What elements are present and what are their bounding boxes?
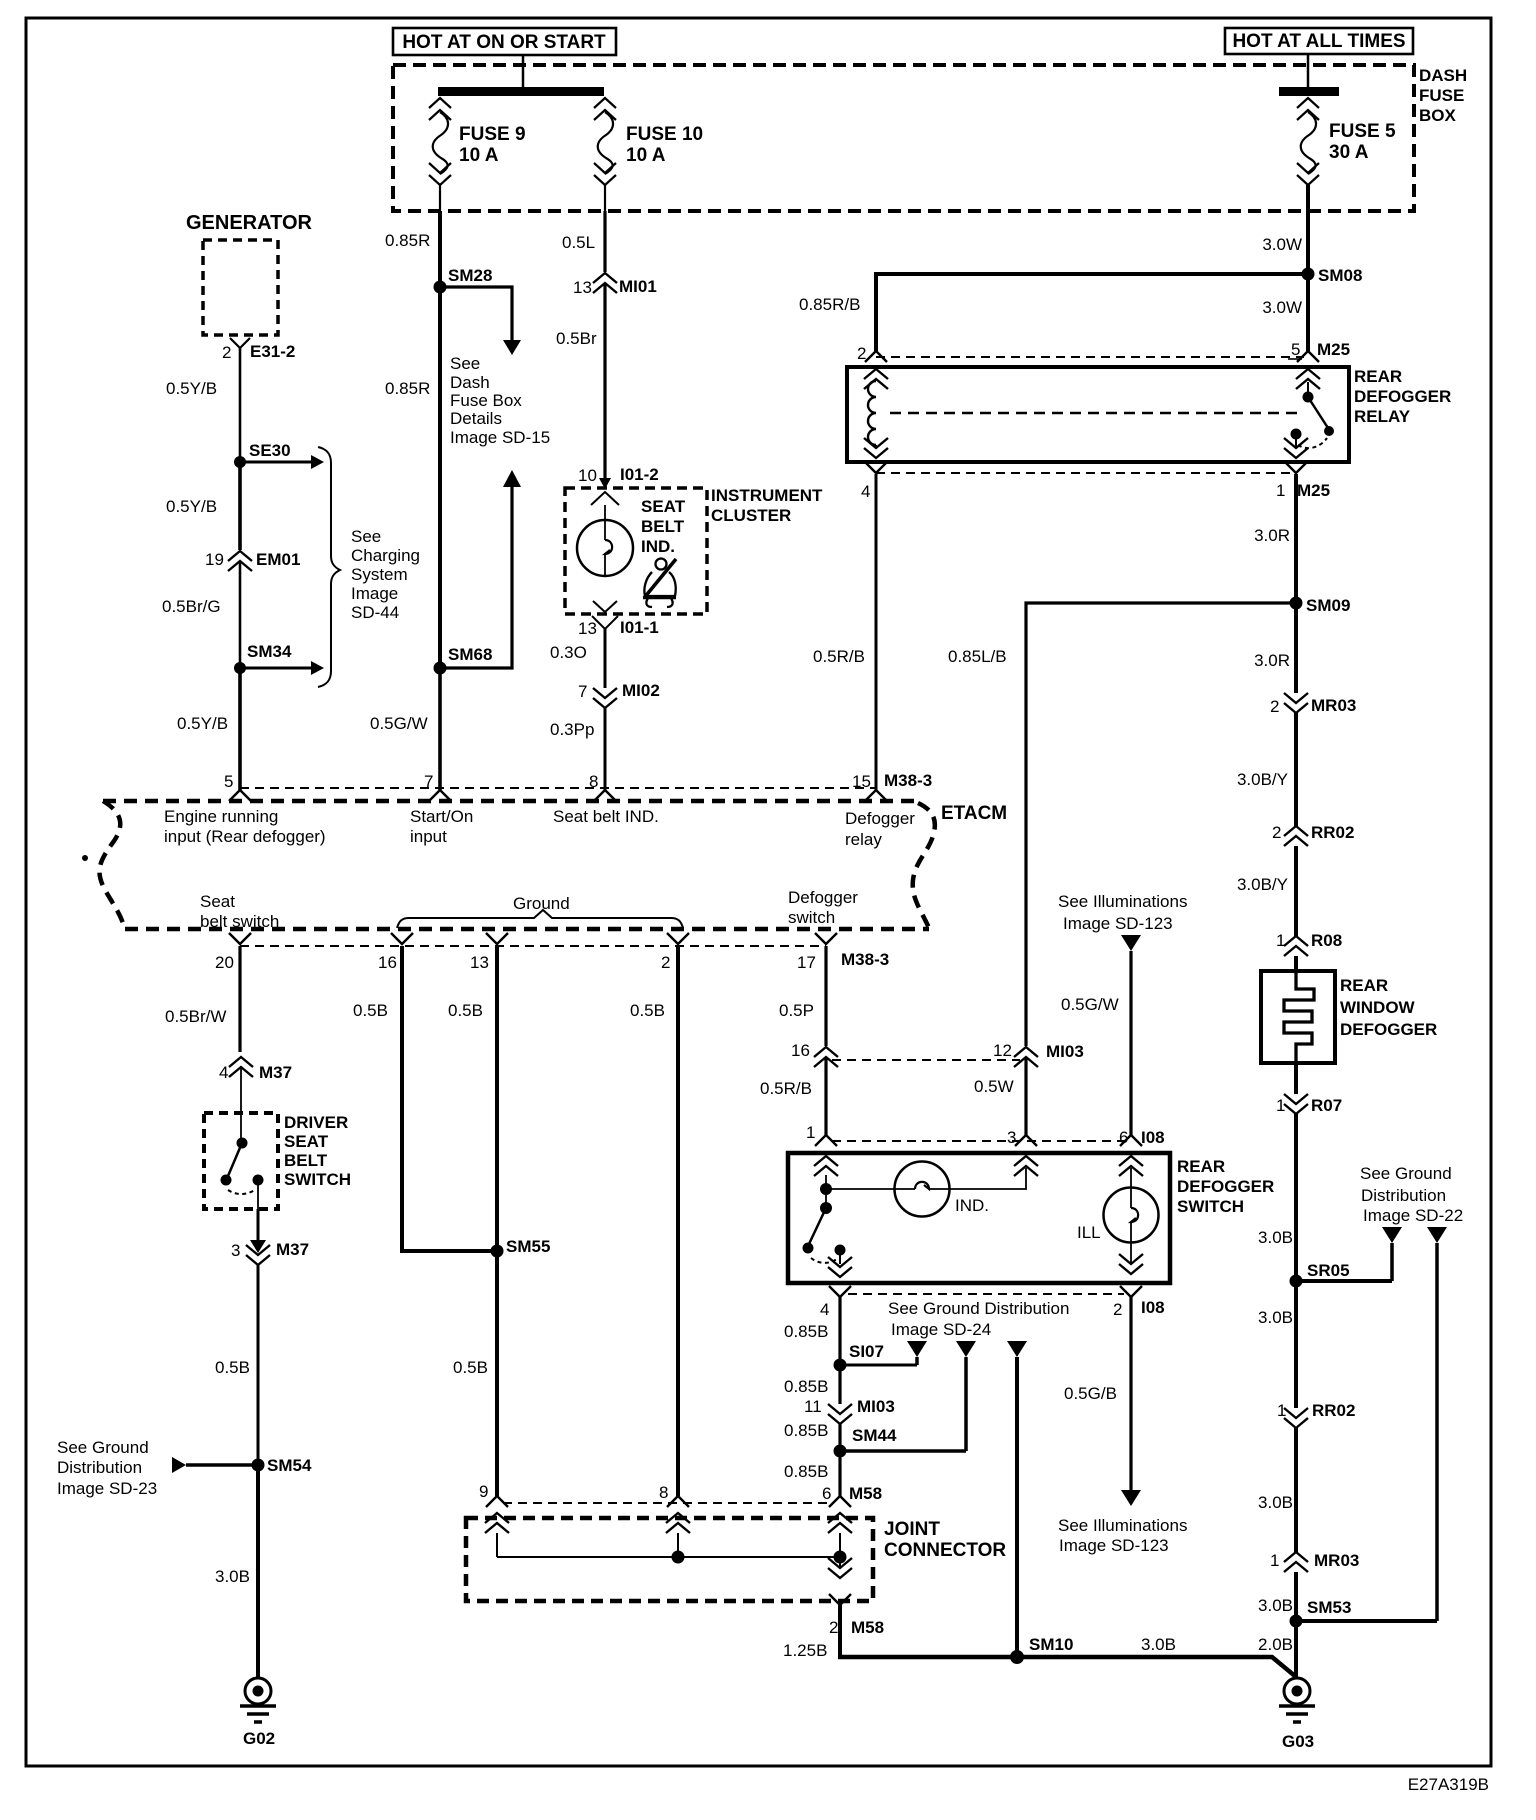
wire 0.5P ETACM pin 17 to MI03 pin 16 <box>779 946 826 1046</box>
ground G03 <box>1279 1678 1315 1751</box>
svg-text:0.85R: 0.85R <box>385 379 430 398</box>
wire 0.5B ETACM pin 2 to joint connector pin 8 <box>630 946 678 1496</box>
connector line M25 lower (dashed) <box>876 472 1293 474</box>
svg-text:0.5B: 0.5B <box>630 1001 665 1020</box>
svg-text:3.0B/Y: 3.0B/Y <box>1237 770 1288 789</box>
svg-text:Seat: Seat <box>200 892 235 911</box>
svg-text:0.5W: 0.5W <box>974 1077 1014 1096</box>
node SR05 <box>1290 1261 1393 1288</box>
defogger switch contacts <box>803 1175 846 1264</box>
svg-text:SM68: SM68 <box>448 645 492 664</box>
svg-text:CLUSTER: CLUSTER <box>711 506 791 525</box>
connector I01-1 pin 13 <box>578 601 659 638</box>
svg-text:See Illuminations: See Illuminations <box>1058 892 1187 911</box>
connector line M25 (dashed) <box>876 356 1304 358</box>
wire defogger to R07 pin 1 <box>1294 1063 1298 1094</box>
svg-text:INSTRUMENT: INSTRUMENT <box>711 486 823 505</box>
connector M58 pin 6 <box>822 1484 882 1533</box>
seat belt pictogram <box>643 559 676 608</box>
svg-text:2: 2 <box>829 1618 838 1637</box>
svg-text:10 A: 10 A <box>459 145 499 166</box>
header box HOT AT ALL TIMES <box>1225 28 1413 54</box>
ETACM outline left wavy edge <box>99 801 125 929</box>
wire 0.3Pp MI02 to ETACM pin 8 <box>550 708 605 790</box>
svg-text:3.0R: 3.0R <box>1254 651 1290 670</box>
ground G02 <box>240 1678 276 1748</box>
svg-text:30 A: 30 A <box>1329 142 1369 163</box>
instrument cluster (dashed box) <box>565 488 707 614</box>
switch pin 4 <box>820 1257 852 1319</box>
svg-text:Dash: Dash <box>450 373 490 392</box>
svg-text:G02: G02 <box>243 1729 275 1748</box>
svg-text:input (Rear defogger): input (Rear defogger) <box>164 827 326 846</box>
note See Ground Distribution Image SD-22 <box>1360 1164 1463 1225</box>
wire ground bus to SM10 <box>838 1655 1017 1660</box>
svg-text:19: 19 <box>205 550 224 569</box>
label SEAT BELT IND. <box>641 497 686 556</box>
svg-text:DASH: DASH <box>1419 66 1467 85</box>
seat belt switch contacts <box>221 1138 264 1210</box>
svg-text:See Ground: See Ground <box>1360 1164 1452 1183</box>
svg-text:M37: M37 <box>276 1240 309 1259</box>
ETACM pin 17 M38-3 <box>797 933 889 972</box>
relay switch <box>1291 382 1335 448</box>
svg-text:2: 2 <box>1113 1300 1122 1319</box>
label REAR DEFOGGER RELAY <box>1354 367 1451 426</box>
wire 0.5G/W illumination feed to switch pin 6 <box>1061 951 1131 1135</box>
wire 0.5Br MI01 to instrument cluster pin 10 <box>556 284 605 480</box>
svg-text:12: 12 <box>993 1041 1012 1060</box>
wire 0.5B M37 to SM54 <box>215 1265 258 1465</box>
svg-text:Distribution: Distribution <box>57 1458 142 1477</box>
svg-text:BELT: BELT <box>284 1151 328 1170</box>
svg-text:3.0R: 3.0R <box>1254 526 1290 545</box>
svg-text:3.0B: 3.0B <box>1258 1596 1293 1615</box>
svg-text:Fuse Box: Fuse Box <box>450 391 522 410</box>
svg-text:0.85B: 0.85B <box>784 1377 828 1396</box>
svg-text:belt switch: belt switch <box>200 912 279 931</box>
svg-text:See: See <box>450 354 480 373</box>
svg-text:MI01: MI01 <box>619 277 657 296</box>
svg-text:0.5L: 0.5L <box>562 233 595 252</box>
indicator lamp IND <box>826 1162 1026 1217</box>
svg-text:3.0B: 3.0B <box>1141 1635 1176 1654</box>
label DASH FUSE BOX <box>1419 66 1467 125</box>
svg-text:SM34: SM34 <box>247 642 292 661</box>
svg-text:M38-3: M38-3 <box>841 950 889 969</box>
note text See Dash Fuse Box Details Image SD-15 <box>450 354 550 447</box>
svg-text:2: 2 <box>1270 697 1279 716</box>
svg-text:FUSE 5: FUSE 5 <box>1329 121 1396 142</box>
svg-text:7: 7 <box>424 772 433 791</box>
note See Illuminations Image SD-123 (top) <box>1058 892 1187 951</box>
svg-text:DEFOGGER: DEFOGGER <box>1177 1177 1274 1196</box>
svg-text:BELT: BELT <box>641 517 685 536</box>
note See Ground Distribution Image SD-24 <box>888 1299 1069 1339</box>
ETACM outline right wavy edge <box>913 803 935 928</box>
wire 1.25B M58 pin 2 down <box>783 1605 840 1660</box>
label REAR DEFOGGER SWITCH <box>1177 1157 1274 1216</box>
label JOINT CONNECTOR <box>884 1519 1006 1561</box>
wire 0.85B SI07 to MI03 pin 11 <box>784 1365 840 1404</box>
svg-text:0.85B: 0.85B <box>784 1322 828 1341</box>
wire 0.85R SM28 to SM68 <box>385 287 440 668</box>
node SM34 <box>234 642 324 675</box>
svg-text:M25: M25 <box>1317 340 1350 359</box>
ground distribution triangle SD-24 a <box>907 1341 927 1365</box>
svg-text:0.85R/B: 0.85R/B <box>799 295 860 314</box>
svg-text:relay: relay <box>845 830 882 849</box>
svg-text:SI07: SI07 <box>849 1342 884 1361</box>
svg-text:EM01: EM01 <box>256 550 300 569</box>
svg-text:3.0B: 3.0B <box>1258 1228 1293 1247</box>
svg-text:10 A: 10 A <box>626 145 666 166</box>
svg-text:See: See <box>351 527 381 546</box>
svg-text:SM53: SM53 <box>1307 1598 1351 1617</box>
svg-text:13: 13 <box>573 278 592 297</box>
svg-text:3.0W: 3.0W <box>1262 235 1302 254</box>
svg-text:Image SD-123: Image SD-123 <box>1059 1536 1169 1555</box>
svg-text:16: 16 <box>791 1041 810 1060</box>
svg-text:3.0W: 3.0W <box>1262 298 1302 317</box>
svg-text:RR02: RR02 <box>1311 823 1354 842</box>
svg-text:0.5Y/B: 0.5Y/B <box>177 714 228 733</box>
svg-text:FUSE: FUSE <box>1419 86 1464 105</box>
svg-text:M25: M25 <box>1297 481 1330 500</box>
node SI07 <box>834 1342 918 1372</box>
ETACM pin 15 M38-3 <box>852 771 932 801</box>
wire 0.5Br/G EM01 to SM34 <box>162 562 240 668</box>
driver seat belt switch (dashed box) <box>204 1113 278 1209</box>
joint connector internal bus <box>497 1533 847 1568</box>
svg-text:13: 13 <box>470 953 489 972</box>
ETACM outline bottom edge <box>125 927 929 932</box>
ETACM pin 20 <box>215 933 251 972</box>
wire 0.5Br/W ETACM pin 20 to M37 pin 4 <box>165 946 240 1052</box>
svg-text:I08: I08 <box>1141 1298 1165 1317</box>
svg-text:CONNECTOR: CONNECTOR <box>884 1540 1006 1561</box>
svg-text:2: 2 <box>661 953 670 972</box>
svg-text:MR03: MR03 <box>1311 696 1356 715</box>
label INSTRUMENT CLUSTER <box>711 486 823 525</box>
svg-text:9: 9 <box>479 1482 488 1501</box>
svg-text:FUSE 9: FUSE 9 <box>459 124 526 145</box>
node SM53 <box>1290 1598 1438 1628</box>
note See Illuminations Image SD-123 (bottom) <box>1058 1490 1187 1555</box>
svg-text:0.5B: 0.5B <box>448 1001 483 1020</box>
svg-text:See Ground Distribution: See Ground Distribution <box>888 1299 1069 1318</box>
connector EM01 pin 19 <box>205 550 300 571</box>
svg-text:Defogger: Defogger <box>845 809 915 828</box>
svg-text:HOT AT ON OR START: HOT AT ON OR START <box>402 32 606 53</box>
node SE30 <box>234 441 324 469</box>
svg-text:0.85L/B: 0.85L/B <box>948 647 1007 666</box>
svg-text:0.5Br/G: 0.5Br/G <box>162 597 221 616</box>
wire M37 to seat belt switch <box>240 1068 242 1143</box>
svg-text:3: 3 <box>1007 1128 1016 1147</box>
svg-text:M58: M58 <box>849 1484 882 1503</box>
svg-text:FUSE 10: FUSE 10 <box>626 124 703 145</box>
wire 3.0B RR02 to MR03 pin 1 <box>1258 1428 1296 1552</box>
svg-text:0.5Y/B: 0.5Y/B <box>166 497 217 516</box>
connector MI03 pin 11 <box>804 1397 895 1424</box>
connector line M38-3 top (thin dashed) <box>240 787 876 789</box>
fuse F10 symbol <box>594 98 616 211</box>
svg-text:Seat belt IND.: Seat belt IND. <box>553 807 659 826</box>
svg-text:Image: Image <box>351 584 398 603</box>
label Ground with brace <box>397 894 683 928</box>
wire 2.0B SM53 to G03 <box>1258 1621 1296 1678</box>
ETACM pin 2 <box>661 933 689 972</box>
svg-text:REAR: REAR <box>1340 976 1388 995</box>
connector M58 pin 2 <box>828 1558 884 1637</box>
svg-text:IND.: IND. <box>955 1196 989 1215</box>
joint connector (dashed box) <box>466 1518 873 1601</box>
svg-text:17: 17 <box>797 953 816 972</box>
svg-text:R08: R08 <box>1311 931 1342 950</box>
dash fuse box (dashed enclosure) <box>393 65 1414 211</box>
label Defogger switch <box>788 888 858 927</box>
svg-text:2: 2 <box>222 343 231 362</box>
ETACM input labels <box>164 807 326 846</box>
svg-text:SM08: SM08 <box>1318 266 1362 285</box>
wire 0.5R/B MI03 to switch pin 1 <box>760 1058 826 1135</box>
svg-text:1: 1 <box>1276 481 1285 500</box>
wire 0.85L/B SM09 branch to MI03 pin 12 <box>948 603 1296 1046</box>
svg-text:0.5G/B: 0.5G/B <box>1064 1384 1117 1403</box>
node SM68 with arrow up to note <box>434 470 522 675</box>
svg-text:SD-44: SD-44 <box>351 603 399 622</box>
svg-text:Distribution: Distribution <box>1361 1186 1446 1205</box>
svg-text:RELAY: RELAY <box>1354 407 1411 426</box>
svg-text:HOT AT ALL TIMES: HOT AT ALL TIMES <box>1232 31 1405 52</box>
svg-text:System: System <box>351 565 408 584</box>
svg-text:I01-1: I01-1 <box>620 618 659 637</box>
wire 3.0R M25 pin 1 to SM09 <box>1254 474 1296 603</box>
svg-text:switch: switch <box>788 908 835 927</box>
svg-text:Image SD-15: Image SD-15 <box>450 428 550 447</box>
fuse F5 symbol <box>1297 98 1319 211</box>
svg-text:M37: M37 <box>259 1063 292 1082</box>
connector line MI03 (thin dashed) <box>832 1059 1020 1061</box>
ground distribution triangle SD-24 b <box>956 1341 976 1451</box>
wire seat belt switch to M37 pin 3 <box>257 1209 260 1243</box>
wire 3.0B SM10 to G03 <box>1017 1635 1295 1679</box>
svg-text:SM10: SM10 <box>1029 1635 1073 1654</box>
connector line M38-3 bottom (thin dashed) <box>240 945 826 947</box>
node SM28 with arrow to note <box>434 266 522 355</box>
wire 0.85R fuse 9 to SM28 <box>385 211 440 287</box>
svg-text:G03: G03 <box>1282 1732 1314 1751</box>
ETACM pin 7 <box>424 772 451 801</box>
wire 3.0W SM08 to M25 pin 5 <box>1262 274 1308 351</box>
svg-text:Defogger: Defogger <box>788 888 858 907</box>
node SM08 <box>1302 266 1363 285</box>
svg-text:5: 5 <box>1291 340 1300 359</box>
fuse bus bar (fuses 9/10) <box>438 87 604 96</box>
svg-text:8: 8 <box>659 1483 668 1502</box>
svg-text:Image SD-23: Image SD-23 <box>57 1479 157 1498</box>
ground distribution triangle SD-22 a <box>1382 1227 1402 1281</box>
wire 3.0B MR03 to SM53 <box>1258 1572 1296 1621</box>
wire 0.5B ETACM pin 13 to SM55 <box>448 946 497 1251</box>
svg-text:GENERATOR: GENERATOR <box>186 212 312 234</box>
connector M25 pin 1 <box>1276 438 1330 500</box>
node SM44 <box>834 1426 967 1458</box>
wire feed from HOT AT ON OR START to fuse bus <box>522 55 525 87</box>
svg-text:REAR: REAR <box>1177 1157 1225 1176</box>
svg-text:0.3O: 0.3O <box>550 643 587 662</box>
svg-text:0.5R/B: 0.5R/B <box>760 1079 812 1098</box>
connector E31-2 pin 2 <box>222 338 295 362</box>
svg-text:10: 10 <box>578 466 597 485</box>
label Start/On input <box>410 807 473 846</box>
svg-text:Image SD-123: Image SD-123 <box>1063 914 1173 933</box>
connector I01-2 pin 10 <box>578 465 659 505</box>
node SM55 <box>491 1237 551 1258</box>
svg-text:0.85B: 0.85B <box>784 1421 828 1440</box>
connector line I08 (thin dashed) <box>832 1140 1124 1142</box>
connector M25 pin 4 (relay coil out) <box>861 438 888 501</box>
label Defogger relay <box>845 809 915 849</box>
svg-text:DEFOGGER: DEFOGGER <box>1354 387 1451 406</box>
svg-text:1.25B: 1.25B <box>783 1641 827 1660</box>
svg-text:1: 1 <box>1276 1096 1285 1115</box>
note text See Charging System Image SD-44 <box>351 527 420 622</box>
wire 0.5L fuse 10 to MI01 <box>562 211 605 272</box>
fuse F5 supply bar <box>1279 87 1339 96</box>
ETACM pin 8 <box>589 772 616 801</box>
svg-text:1: 1 <box>1277 1401 1286 1420</box>
svg-text:I01-2: I01-2 <box>620 465 659 484</box>
header box HOT AT ON OR START <box>393 28 616 55</box>
wire 0.5Y/B SM34 to ETACM pin 5 <box>177 668 240 790</box>
connector R08 pin 1 <box>1276 931 1342 956</box>
wire 0.85B switch pin 4 to SI07 <box>784 1297 840 1365</box>
connector MI03 pin 12 <box>993 1041 1084 1067</box>
svg-text:3: 3 <box>231 1241 240 1260</box>
label FUSE 9 10 A <box>459 124 526 166</box>
svg-text:0.5G/W: 0.5G/W <box>1061 995 1119 1014</box>
relay actuation line (dashed) <box>890 412 1300 414</box>
svg-text:BOX: BOX <box>1419 106 1457 125</box>
svg-text:7: 7 <box>578 682 587 701</box>
svg-text:DEFOGGER: DEFOGGER <box>1340 1020 1437 1039</box>
fuse F9 symbol <box>429 98 451 211</box>
svg-text:SR05: SR05 <box>1307 1261 1350 1280</box>
ground distribution triangle SD-24 c <box>1007 1341 1027 1657</box>
ETACM pin 16 <box>378 933 413 972</box>
seat belt indicator bulb <box>577 505 633 576</box>
svg-text:0.3Pp: 0.3Pp <box>550 720 594 739</box>
svg-text:M38-3: M38-3 <box>884 771 932 790</box>
wire 0.5G/B switch pin 2 to illumination <box>1064 1297 1131 1491</box>
svg-text:0.5R/B: 0.5R/B <box>813 647 865 666</box>
label Seat belt switch <box>200 892 279 931</box>
svg-text:SM55: SM55 <box>506 1237 550 1256</box>
svg-text:0.5B: 0.5B <box>353 1001 388 1020</box>
svg-text:input: input <box>410 827 447 846</box>
svg-text:6: 6 <box>1119 1128 1128 1147</box>
ETACM pin 5 <box>224 772 251 801</box>
wire 0.5B ETACM pin 16 to SM55 <box>353 946 497 1251</box>
svg-text:3.0B: 3.0B <box>1258 1308 1293 1327</box>
note brace: see charging system <box>318 447 340 687</box>
svg-text:13: 13 <box>578 619 597 638</box>
connector M37 pin 3 <box>231 1240 309 1265</box>
svg-text:3.0B/Y: 3.0B/Y <box>1237 875 1288 894</box>
svg-text:1: 1 <box>1270 1551 1279 1570</box>
joint connector pin 8 <box>659 1483 690 1557</box>
label FUSE 10 10 A <box>626 124 703 166</box>
svg-text:0.5Br/W: 0.5Br/W <box>165 1007 226 1026</box>
svg-text:Details: Details <box>450 409 502 428</box>
wire 3.0R SM09 to MR03 pin 2 <box>1254 603 1296 693</box>
ETACM module outline (dashed) top edge <box>103 799 918 804</box>
svg-text:0.85B: 0.85B <box>784 1462 828 1481</box>
svg-text:20: 20 <box>215 953 234 972</box>
joint connector pin 9 <box>479 1482 509 1557</box>
svg-text:I08: I08 <box>1141 1128 1165 1147</box>
svg-text:0.5B: 0.5B <box>215 1358 250 1377</box>
label DRIVER SEAT BELT SWITCH <box>284 1113 351 1189</box>
connector RR02 pin 2 <box>1272 823 1354 846</box>
svg-text:REAR: REAR <box>1354 367 1402 386</box>
svg-text:8: 8 <box>589 772 598 791</box>
svg-text:SM54: SM54 <box>267 1456 312 1475</box>
svg-text:See Illuminations: See Illuminations <box>1058 1516 1187 1535</box>
switch pin 2 I08 <box>1113 1254 1165 1319</box>
svg-text:ILL: ILL <box>1077 1223 1101 1242</box>
wire R08 to rear window defogger <box>1294 956 1298 971</box>
ground distribution triangle SD-22 b <box>1427 1227 1447 1621</box>
wire 0.3O I01-1 to MI02 <box>550 629 605 688</box>
label FUSE 5 30 A <box>1329 121 1396 163</box>
wire 0.85B MI03 to SM44 <box>784 1421 840 1451</box>
svg-text:Image SD-22: Image SD-22 <box>1363 1206 1463 1225</box>
wire 0.5R/B relay pin 4 to ETACM pin 15 <box>813 474 876 790</box>
connector MR03 pin 1 <box>1270 1551 1359 1572</box>
svg-text:1: 1 <box>806 1123 815 1142</box>
svg-text:3.0B: 3.0B <box>1258 1493 1293 1512</box>
svg-text:Start/On: Start/On <box>410 807 473 826</box>
svg-text:E31-2: E31-2 <box>250 342 295 361</box>
wire branch SM08 to relay pin 2 <box>876 274 1308 351</box>
wire 3.0B/Y MR03 to RR02 pin 2 <box>1237 713 1296 826</box>
svg-text:6: 6 <box>822 1484 831 1503</box>
wire 0.5Y/B SE30 to EM01 <box>166 462 240 550</box>
svg-text:MI02: MI02 <box>622 681 660 700</box>
svg-text:2: 2 <box>857 344 866 363</box>
wire 0.5G/W SM68 to ETACM pin 7 <box>370 668 440 790</box>
svg-text:SM44: SM44 <box>852 1426 897 1445</box>
wire 0.5B SM55 to joint connector pin 9 <box>453 1251 497 1496</box>
svg-text:RR02: RR02 <box>1312 1401 1355 1420</box>
svg-text:R07: R07 <box>1311 1096 1342 1115</box>
svg-text:M58: M58 <box>851 1618 884 1637</box>
svg-text:0.5Y/B: 0.5Y/B <box>166 379 217 398</box>
wire 3.0B/Y RR02 to R08 pin 1 <box>1237 846 1296 936</box>
svg-text:3.0B: 3.0B <box>215 1567 250 1586</box>
node SM10 <box>1010 1635 1073 1664</box>
connector line M58 (thin dashed) <box>503 1502 834 1504</box>
svg-text:SWITCH: SWITCH <box>284 1170 351 1189</box>
connector MI03 pin 16 <box>791 1041 838 1067</box>
svg-text:2.0B: 2.0B <box>1258 1635 1293 1654</box>
connector R07 pin 1 <box>1276 1094 1342 1115</box>
node SM54 <box>252 1456 312 1475</box>
connector line I08 lower (thin dashed) <box>848 1293 1124 1295</box>
